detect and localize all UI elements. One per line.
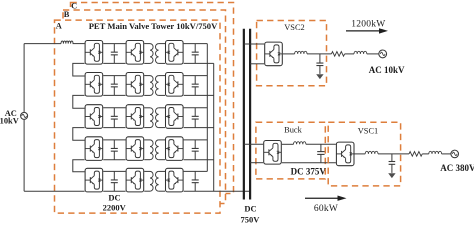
capacitor C vsc2 filter bbox=[319, 54, 321, 63]
wire: bus to Buck + bbox=[244, 143, 263, 145]
wire: row 5 secondary stubs bbox=[159, 170, 165, 172]
inductor L4 bbox=[365, 151, 378, 154]
wire: Buck output top bbox=[282, 143, 294, 145]
power arrow 60kW bbox=[305, 197, 339, 199]
wire: row 3 DC-link rails bbox=[103, 107, 125, 109]
capacitor C buck bbox=[320, 144, 322, 151]
wire bbox=[378, 153, 409, 155]
wire: bus to Buck - bbox=[250, 162, 263, 164]
cell H2c (output rectifier row 2) bbox=[166, 73, 184, 97]
capacitor C1b (output) bbox=[194, 44, 196, 53]
cell H5c (output rectifier row 5) bbox=[166, 168, 184, 192]
svg-text:A: A bbox=[56, 21, 62, 30]
phase box A bbox=[55, 20, 221, 213]
cell H5b (MF inverter row 5) bbox=[126, 168, 144, 192]
converter block VSC2 (dashed) bbox=[257, 21, 327, 86]
wire bbox=[345, 53, 354, 55]
converter block VSC1 (dashed) bbox=[328, 122, 400, 186]
capacitor C2b (output) bbox=[194, 76, 196, 85]
svg-text:VSC1: VSC1 bbox=[358, 127, 378, 136]
svg-text:DC 375V: DC 375V bbox=[291, 167, 327, 177]
wire: row 2 secondary stubs bbox=[159, 75, 165, 77]
wire: VSC1 output bbox=[355, 153, 366, 155]
transformer T2 secondary bbox=[156, 76, 159, 96]
wire: row 4 secondary stubs bbox=[159, 139, 165, 141]
wire: output collection rail + bbox=[206, 44, 208, 172]
wire: row 4 output rails bbox=[184, 139, 208, 141]
svg-text:750V: 750V bbox=[241, 215, 261, 225]
wire: row 2 DC-link rails bbox=[103, 75, 125, 77]
AC source G1 bbox=[21, 112, 28, 119]
svg-text:DC: DC bbox=[244, 204, 256, 214]
svg-text:Buck: Buck bbox=[284, 126, 302, 135]
wire bbox=[442, 153, 451, 155]
wire: bus to VSC2 - bbox=[250, 63, 264, 65]
cell H1b (MF inverter row 1) bbox=[126, 41, 144, 65]
wire bbox=[422, 153, 429, 155]
inductor L3 bbox=[294, 142, 306, 145]
cell H1c (output rectifier row 1) bbox=[166, 41, 184, 65]
wire: row 5 output rails bbox=[184, 170, 208, 172]
AC grid source 380V bbox=[451, 150, 459, 158]
transformer T1 primary bbox=[150, 44, 153, 64]
wire: row 2 output rails bbox=[184, 75, 208, 77]
cell H3c (output rectifier row 3) bbox=[166, 105, 184, 129]
transformer T3 primary bbox=[150, 108, 153, 128]
capacitor C4a (DC link) bbox=[113, 140, 115, 149]
cell U2 (VSC2 valve) bbox=[265, 42, 283, 66]
cell H1a (input H-bridge row 1) bbox=[85, 41, 103, 65]
wire: row 3 primary stubs bbox=[144, 107, 150, 109]
svg-text:B: B bbox=[64, 10, 70, 19]
capacitor C vsc1 filter bbox=[391, 154, 393, 162]
power arrow 1200kW bbox=[346, 30, 381, 32]
cell H4b (MF inverter row 4) bbox=[126, 137, 144, 161]
cell H2a (input H-bridge row 2) bbox=[85, 73, 103, 97]
inductor L4g bbox=[429, 151, 442, 154]
cell H4a (input H-bridge row 4) bbox=[85, 137, 103, 161]
wire: row 1 output rails bbox=[184, 43, 208, 45]
transformer T3 secondary bbox=[156, 108, 159, 128]
converter block Buck (dashed) bbox=[256, 122, 325, 179]
inductor L2g bbox=[354, 51, 367, 54]
svg-text:DC: DC bbox=[108, 193, 120, 203]
capacitor C3a (DC link) bbox=[113, 108, 115, 117]
capacitor C3b (output) bbox=[194, 108, 196, 117]
capacitor C5b (output) bbox=[194, 171, 196, 180]
transformer T5 secondary bbox=[156, 171, 159, 191]
svg-text:2200V: 2200V bbox=[103, 203, 127, 213]
cell U4 (VSC1 valve) bbox=[336, 142, 354, 166]
wire: VSC2 output bbox=[283, 53, 295, 55]
capacitor C1a (DC link) bbox=[113, 44, 115, 53]
wire: top feed bbox=[24, 43, 61, 45]
resistor R4 bbox=[409, 152, 422, 157]
svg-text:10kV: 10kV bbox=[0, 117, 19, 126]
capacitor C2a (DC link) bbox=[113, 76, 115, 85]
cell U3 (Buck valve) bbox=[264, 141, 282, 165]
wire: Buck bottom rail bbox=[282, 162, 336, 164]
wire: series link row 2 to row 3 bbox=[73, 95, 85, 108]
inductor L2 bbox=[295, 51, 307, 54]
wire: row 2 primary stubs bbox=[144, 75, 150, 77]
transformer T2 primary bbox=[150, 76, 153, 96]
wire: row 4 DC-link rails bbox=[103, 139, 125, 141]
wire: row 1 primary stubs bbox=[144, 43, 150, 45]
ground (VSC1 filter) bbox=[388, 173, 395, 178]
wire: row 3 output rails bbox=[184, 107, 208, 109]
wire: row 4 primary stubs bbox=[144, 139, 150, 141]
svg-text:AC 380V: AC 380V bbox=[440, 163, 474, 173]
svg-text:60kW: 60kW bbox=[314, 204, 338, 214]
transformer T4 secondary bbox=[156, 140, 159, 160]
phase box C bbox=[71, 3, 234, 194]
capacitor C4b (output) bbox=[194, 140, 196, 149]
cell H3a (input H-bridge row 3) bbox=[85, 105, 103, 129]
cell H4c (output rectifier row 4) bbox=[166, 137, 184, 161]
inductor L1 (input) bbox=[61, 41, 73, 44]
cell H5a (input H-bridge row 5) bbox=[85, 168, 103, 192]
ground (VSC2 filter) bbox=[316, 74, 323, 79]
cell H2b (MF inverter row 2) bbox=[126, 73, 144, 97]
svg-text:AC 10kV: AC 10kV bbox=[369, 65, 405, 75]
svg-text:VSC2: VSC2 bbox=[284, 23, 304, 32]
wire: row 5 primary stubs bbox=[144, 170, 150, 172]
wire: source vertical bbox=[23, 44, 25, 113]
transformer T5 primary bbox=[150, 171, 153, 191]
wire: row 1 DC-link rails bbox=[103, 43, 125, 45]
svg-text:1200kW: 1200kW bbox=[351, 20, 385, 30]
wire: VSC2 to grid bbox=[307, 53, 331, 55]
wire: bus to VSC2 + bbox=[244, 43, 264, 45]
phase box B bbox=[63, 10, 226, 204]
wire: output collection rail - bbox=[213, 63, 215, 191]
wire: bottom return bbox=[24, 190, 85, 192]
DC 750V bus bar + bbox=[243, 29, 245, 200]
wire: row 5 DC-link rails bbox=[103, 170, 125, 172]
cell H3b (MF inverter row 3) bbox=[126, 105, 144, 129]
wire: row 3 secondary stubs bbox=[159, 107, 165, 109]
capacitor C5a (DC link) bbox=[113, 171, 115, 180]
svg-text:PET Main Valve Tower 10kV/750V: PET Main Valve Tower 10kV/750V bbox=[89, 21, 218, 31]
wire: series link row 4 to row 5 bbox=[73, 160, 85, 172]
wire: series link row 1 to row 2 bbox=[73, 63, 85, 76]
transformer T1 secondary bbox=[156, 44, 159, 64]
wire bbox=[306, 143, 336, 145]
resistor R2 bbox=[331, 52, 344, 57]
DC 750V bus bar - bbox=[249, 29, 251, 200]
transformer T4 primary bbox=[150, 140, 153, 160]
wire: row 1 secondary stubs bbox=[159, 43, 165, 45]
wire: series link row 3 to row 4 bbox=[73, 128, 85, 141]
AC grid source 10kV bbox=[379, 50, 387, 58]
wire: into first cell bbox=[73, 43, 85, 45]
wire bbox=[367, 53, 379, 55]
